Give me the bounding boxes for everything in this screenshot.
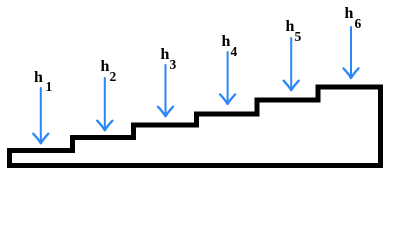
label h2	[101, 58, 117, 84]
wire arrow 5	[284, 38, 299, 90]
arrows h1-h6 (blue)	[33, 27, 358, 143]
wire arrow 3	[158, 65, 173, 116]
label h5	[286, 18, 302, 44]
svg-text:4: 4	[231, 44, 238, 59]
label h1	[34, 69, 53, 94]
wire arrow 6	[343, 27, 358, 78]
svg-text:h: h	[101, 58, 110, 75]
svg-text:1: 1	[46, 79, 53, 94]
wire arrow 2	[97, 78, 112, 130]
svg-text:h: h	[161, 46, 170, 63]
svg-text:5: 5	[295, 29, 302, 44]
wire arrow 4	[220, 52, 235, 104]
svg-text:2: 2	[110, 69, 117, 84]
wire arrow 1	[33, 88, 48, 143]
svg-text:3: 3	[170, 57, 177, 72]
label h4	[222, 33, 238, 59]
label h3	[161, 46, 177, 72]
svg-text:h: h	[34, 69, 43, 86]
svg-text:h: h	[286, 18, 295, 35]
svg-text:h: h	[345, 5, 354, 22]
svg-text:h: h	[222, 33, 231, 50]
svg-text:6: 6	[355, 16, 362, 31]
label h6	[345, 5, 362, 31]
staircase outline	[10, 87, 381, 166]
